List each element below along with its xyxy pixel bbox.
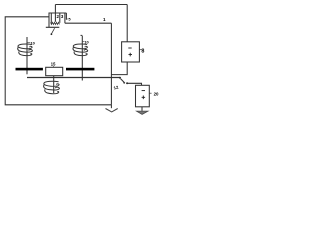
igniter inner wall left [50, 13, 52, 24]
frame wire left loop [5, 17, 111, 105]
switch blade 12 [121, 79, 125, 83]
coil 3 arrowheads [55, 83, 59, 92]
coil 3 swirl [44, 81, 60, 93]
switch contact dot left [119, 77, 121, 79]
wire stub into igniter top [54, 5, 56, 14]
leader 7 [52, 28, 55, 33]
wire switch to box 20 [127, 83, 141, 85]
switch contact dot right [126, 82, 128, 84]
coil 10 right swirl [73, 44, 88, 56]
svg-text:15: 15 [51, 62, 56, 67]
battery 8 minus [128, 47, 131, 49]
wire vertical down to box 8 [126, 5, 128, 42]
coil 10 left swirl [18, 44, 33, 56]
igniter housing 4 outline [46, 13, 67, 27]
label 15 tick [52, 66, 54, 67]
svg-text:20: 20 [154, 92, 159, 97]
leader 7 end dot [51, 33, 53, 35]
wire box 8 return [111, 62, 127, 75]
label 10 leader left [27, 42, 30, 44]
label 20 leader [149, 92, 151, 94]
ground symbol battery [137, 111, 149, 114]
box 15 [46, 67, 63, 75]
svg-text:10: 10 [31, 40, 35, 45]
label 5 leader [67, 18, 68, 20]
svg-text:12: 12 [113, 84, 119, 90]
ground stem battery [141, 107, 143, 111]
resistor zigzag element [51, 22, 60, 24]
wire 1 horizontal [65, 22, 112, 24]
svg-text:3: 3 [61, 14, 64, 19]
label 10 leader right [83, 41, 85, 43]
svg-text:10: 10 [84, 39, 88, 44]
coil 10 left arrowheads [28, 46, 31, 55]
wire box15 to coil 3 [53, 76, 55, 93]
battery 20 plus [142, 96, 146, 100]
igniter right wall segment [64, 13, 66, 23]
svg-text:2: 2 [57, 14, 60, 19]
box 8 [122, 42, 140, 62]
plate bar left [16, 68, 43, 71]
svg-text:5: 5 [68, 16, 71, 21]
battery 20 minus [142, 90, 145, 92]
svg-text:8: 8 [141, 49, 144, 55]
bus wire to switch [27, 77, 120, 79]
svg-text:1: 1 [103, 17, 106, 22]
box 20 [136, 85, 150, 107]
battery 8 plus [129, 53, 133, 57]
igniter inner wall right [59, 13, 61, 23]
ground symbol main [106, 109, 118, 112]
label 8 leader [140, 49, 142, 51]
electrode rod 10 right [81, 35, 83, 80]
main vertical wire right [110, 23, 112, 105]
wire top horizontal from igniter to box 8 [55, 4, 127, 6]
plate bar right [66, 68, 94, 71]
igniter inner wall center [54, 13, 56, 22]
ground stem main [110, 105, 112, 108]
electrode rod 10 left [26, 37, 28, 74]
switch blade arrowhead [123, 82, 125, 84]
